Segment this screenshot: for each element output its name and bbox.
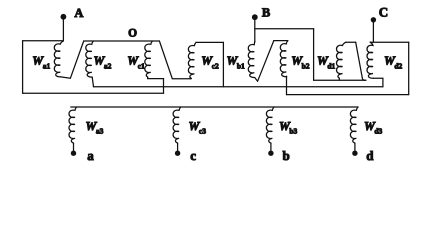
terminal A dot <box>61 14 67 20</box>
inductor W_d2 <box>367 42 373 78</box>
svg-text:d1: d1 <box>327 61 335 70</box>
wire rail B-to-W_d1-bottom <box>314 79 366 81</box>
svg-text:c3: c3 <box>199 127 206 136</box>
wire W_c3 stem <box>177 143 179 151</box>
wire bus segment A to W_a1 top <box>23 40 64 42</box>
svg-text:d2: d2 <box>394 61 402 70</box>
terminal c dot <box>175 151 180 156</box>
wire bus O segment <box>84 40 160 42</box>
svg-text:c: c <box>190 148 196 163</box>
wire B branch drop <box>313 29 315 81</box>
wire W_c2 bottom to diagonal c <box>190 77 192 79</box>
wire W_a1 bottom to diagonal a <box>61 77 71 78</box>
wire W_c2 top drop to rail P <box>222 42 224 86</box>
svg-text:O: O <box>128 27 137 39</box>
inductor W_a1 <box>54 41 63 77</box>
wire W_a3 stem <box>73 143 75 151</box>
svg-text:d: d <box>366 148 374 163</box>
inductor W_a3 <box>69 107 77 143</box>
wire diagonal d (bus to W_d2 bottom) <box>356 42 366 80</box>
wire diagonal c (bus O to W_c2 bottom) <box>159 41 191 79</box>
inductor W_b2 <box>280 41 288 77</box>
wire W_c1 bottom hook to drop <box>148 77 164 79</box>
wire bus W_c2 top segment <box>196 41 223 43</box>
inductor W_c2 <box>188 42 196 78</box>
terminal C dot <box>371 17 376 22</box>
inductor W_d1 <box>337 42 346 78</box>
inductor W_c1 <box>145 41 153 77</box>
wire W_a2 bottom drop to rail P <box>92 77 93 87</box>
terminal d dot <box>352 151 357 156</box>
terminal a dot <box>71 151 76 156</box>
wire W_b3 stem <box>270 143 272 151</box>
terminal B dot <box>252 14 258 20</box>
wire B branch horizontal <box>255 28 314 30</box>
wire C terminal to bus <box>372 22 374 43</box>
wire W_d1 bottom hook to rail <box>338 78 340 80</box>
wire B terminal down to W_b1 <box>254 19 256 42</box>
inductor W_b1 <box>248 41 255 77</box>
svg-text:C: C <box>379 4 388 19</box>
wire W_b2 bottom drop to rail <box>286 76 288 94</box>
svg-text:b: b <box>283 148 290 163</box>
svg-text:A: A <box>74 6 83 20</box>
wire diagonal a (W_a1 to bus O) <box>70 41 83 78</box>
wire left frame edge <box>22 41 24 93</box>
inductor W_d3 <box>350 107 358 143</box>
svg-text:b1: b1 <box>237 61 245 70</box>
svg-text:c1: c1 <box>138 61 145 70</box>
svg-text:B: B <box>262 6 270 20</box>
wire W_c1 bottom drop <box>163 79 165 94</box>
wire W_d2 bottom step to rail P <box>373 78 383 87</box>
svg-text:a1: a1 <box>43 61 51 70</box>
svg-text:a: a <box>87 148 94 163</box>
inductor W_c3 <box>173 107 181 143</box>
wire bottom rail C-frame <box>287 94 409 96</box>
wire secondary rail <box>71 106 358 108</box>
wire diagonal b (W_b1 to W_b2 bus) <box>258 41 274 82</box>
svg-text:b2: b2 <box>302 61 310 70</box>
wire W_d3 stem <box>354 143 356 151</box>
wire bus W_b2 top segment <box>274 40 288 42</box>
wire right frame edge <box>408 42 410 94</box>
wire bottom rail A-frame <box>23 92 164 94</box>
svg-text:d3: d3 <box>374 127 382 136</box>
svg-text:b3: b3 <box>289 127 297 136</box>
wire bus W_d1 top segment <box>346 41 356 43</box>
svg-text:a2: a2 <box>104 61 112 70</box>
wire bus W_d2/C segment <box>370 41 409 43</box>
svg-text:a3: a3 <box>96 127 104 136</box>
svg-text:c2: c2 <box>212 61 219 70</box>
wire A terminal to bus <box>62 19 64 42</box>
terminal b dot <box>268 151 273 156</box>
inductor W_a2 <box>86 41 94 77</box>
inductor W_b3 <box>266 107 274 143</box>
wire rail P (long middle rail) <box>94 86 383 88</box>
wire W_b1 bottom to diagonal b <box>255 78 258 82</box>
